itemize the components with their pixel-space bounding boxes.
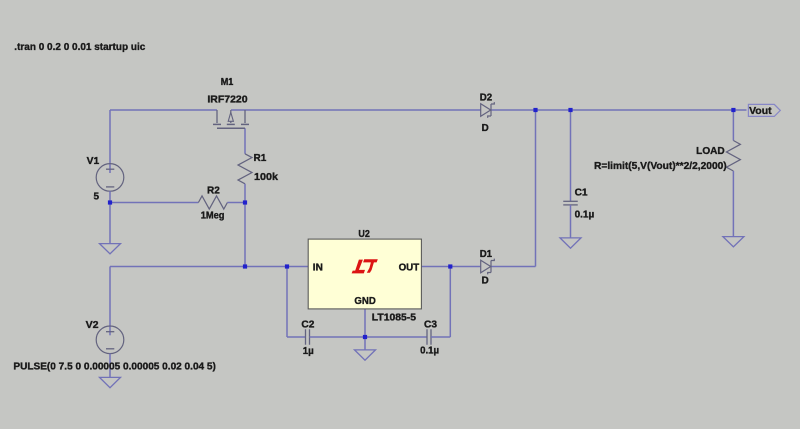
svg-text:C1: C1 [575,187,588,198]
svg-text:IRF7220: IRF7220 [207,95,248,106]
svg-text:OUT: OUT [399,263,420,274]
svg-text:R1: R1 [254,153,267,164]
svg-text:GND: GND [354,296,375,307]
svg-text:LT1085-5: LT1085-5 [372,313,417,324]
svg-text:0.1µ: 0.1µ [575,209,595,220]
svg-text:V1: V1 [87,156,100,167]
svg-text:R=limit(5,V(Vout)**2/2,2000): R=limit(5,V(Vout)**2/2,2000) [594,161,727,172]
svg-text:1Meg: 1Meg [201,211,225,222]
svg-text:PULSE(0 7.5 0 0.00005 0.00005: PULSE(0 7.5 0 0.00005 0.00005 0.02 0.04 … [13,361,216,372]
svg-text:C3: C3 [424,319,437,330]
svg-text:M1: M1 [221,77,234,88]
svg-text:100k: 100k [254,172,278,183]
svg-text:.tran 0 0.2 0 0.01 startup uic: .tran 0 0.2 0 0.01 startup uic [14,42,145,53]
svg-text:R2: R2 [207,186,220,197]
svg-text:IN: IN [313,263,323,274]
svg-text:C2: C2 [301,319,314,330]
svg-text:D: D [482,275,489,286]
svg-text:D2: D2 [480,93,493,104]
svg-text:Vout: Vout [749,106,772,117]
svg-text:LOAD: LOAD [696,146,725,157]
svg-text:1µ: 1µ [303,346,314,357]
svg-text:D: D [482,123,489,134]
svg-text:0.1µ: 0.1µ [420,346,439,357]
svg-text:D1: D1 [480,249,493,260]
svg-text:5: 5 [94,192,100,203]
svg-text:V2: V2 [86,320,99,331]
svg-text:U2: U2 [358,229,370,240]
